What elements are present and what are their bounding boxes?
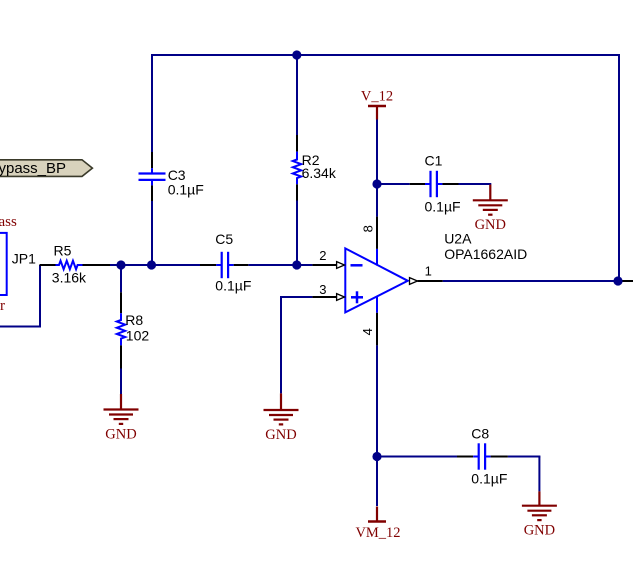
svg-text:4: 4 (360, 328, 375, 335)
svg-text:VM_12: VM_12 (355, 525, 400, 541)
junction output node (613, 276, 622, 285)
pin 1 output (410, 263, 443, 284)
junction C5/R2 node (292, 260, 301, 269)
svg-text:2: 2 (319, 248, 326, 263)
svg-text:C8: C8 (471, 426, 489, 442)
svg-text:0.1µF: 0.1µF (425, 198, 461, 214)
svg-text:102: 102 (126, 327, 150, 343)
resistor R8 (117, 265, 150, 394)
capacitor C1 (377, 153, 491, 215)
port Bypass_BP (0, 160, 92, 177)
power VM_12 (355, 457, 400, 542)
wire output to right edge (443, 280, 633, 282)
svg-text:3: 3 (319, 282, 326, 297)
pin 2 inverting input (312, 248, 344, 268)
svg-text:V_12: V_12 (361, 88, 393, 104)
svg-text:C3: C3 (168, 167, 186, 183)
ground GND at C1 (473, 185, 508, 234)
pin 8 power (361, 184, 377, 266)
capacitor C8 (377, 426, 540, 487)
svg-text:8: 8 (361, 225, 376, 232)
wire top horizontal (151, 54, 620, 56)
wire right vertical (618, 54, 620, 281)
svg-text:6.34k: 6.34k (302, 165, 337, 181)
resistor R2 (293, 55, 337, 266)
capacitor C5 (200, 231, 251, 294)
junction R8 node (116, 260, 125, 269)
junction V+ node (372, 179, 381, 188)
svg-text:C1: C1 (425, 153, 443, 169)
resistor R5 (40, 243, 111, 286)
svg-text:0.1µF: 0.1µF (168, 182, 204, 198)
wire V_12 to node (376, 120, 378, 185)
svg-text:OPA1662AID: OPA1662AID (444, 246, 527, 262)
junction C3 node (147, 260, 156, 269)
svg-text:R8: R8 (125, 312, 143, 328)
wire from JP1 L-shape (0, 265, 40, 327)
capacitor C3 (139, 152, 204, 201)
svg-text:ass: ass (0, 214, 17, 230)
svg-text:1: 1 (425, 263, 432, 278)
svg-text:3.16k: 3.16k (52, 270, 87, 286)
svg-text:GND: GND (265, 427, 296, 443)
svg-text:C5: C5 (215, 231, 233, 247)
svg-text:0.1µF: 0.1µF (215, 278, 251, 294)
svg-text:0.1µF: 0.1µF (471, 471, 507, 487)
svg-text:ypass_BP: ypass_BP (0, 160, 66, 177)
svg-text:U2A: U2A (444, 230, 472, 246)
junction V- node (372, 452, 381, 461)
pin 3 non-inverting input (312, 282, 344, 300)
power V_12 (361, 88, 393, 119)
svg-text:JP1: JP1 (12, 250, 36, 266)
wire main horizontal (110, 264, 312, 266)
op-amp U2A (345, 230, 527, 312)
ground GND at R8 (104, 394, 139, 442)
connector JP1 box (0, 233, 36, 295)
ground GND at pin3 (264, 393, 299, 442)
junction top at R2 (292, 50, 301, 59)
wire left vertical to C3 (151, 54, 153, 266)
net label r (partial) (0, 298, 5, 314)
svg-text:r: r (0, 298, 5, 314)
svg-text:GND: GND (475, 217, 506, 233)
svg-text:GND: GND (105, 426, 136, 442)
svg-text:GND: GND (524, 523, 555, 539)
wire pin3 L-shape (281, 297, 312, 393)
svg-text:R5: R5 (54, 243, 72, 259)
net label ass (partial) (0, 214, 17, 230)
ground GND at C8 (522, 457, 557, 539)
pin 4 power (360, 296, 377, 456)
